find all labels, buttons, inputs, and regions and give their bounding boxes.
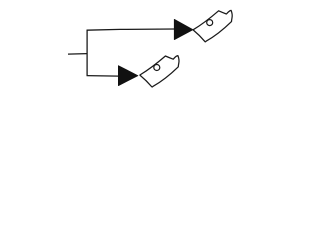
wire: input stub (68, 53, 87, 56)
wire: bottom branch (87, 75, 119, 78)
wire: top branch (87, 29, 175, 30)
earphone E1 hole (circle) (207, 20, 213, 26)
earphone E2 hole (circle) (154, 65, 160, 71)
diode D2 (filled triangle, bottom branch) (118, 66, 137, 86)
earphone E2 body (clip-art, bottom) (140, 56, 179, 87)
diode D1 (filled triangle, top branch) (174, 19, 193, 39)
earphone E1 body (clip-art, top) (193, 10, 232, 41)
wire: vertical bus (86, 30, 88, 75)
